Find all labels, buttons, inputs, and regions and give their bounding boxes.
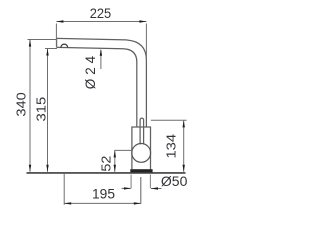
dim 225 left arrow xyxy=(56,20,63,22)
dim 195 right arrow xyxy=(134,202,141,204)
dim 134 bottom arrow xyxy=(183,165,185,172)
aerator dome xyxy=(61,44,68,47)
dim 134 line xyxy=(183,120,185,171)
dim 340 top arrow xyxy=(29,40,31,47)
dim 340 bottom arrow xyxy=(29,165,31,172)
dim 52 bottom arrow xyxy=(114,165,116,172)
base plate xyxy=(130,169,152,173)
svg-text:52: 52 xyxy=(99,156,114,172)
ball joint xyxy=(132,144,151,163)
dim 195 ext left xyxy=(63,174,65,205)
dim 315 top arrow xyxy=(46,49,48,56)
spout outer outline xyxy=(57,38,147,127)
dim 52 top arrow xyxy=(114,150,116,157)
svg-text:340: 340 xyxy=(13,92,28,116)
dim 315 ext top xyxy=(45,48,57,50)
dim 315 line xyxy=(47,49,49,172)
svg-text:Ø50: Ø50 xyxy=(161,173,188,189)
dim O50 left arrow xyxy=(122,187,131,189)
axis line xyxy=(140,177,142,204)
dim 340 ext top xyxy=(28,39,57,41)
counter line xyxy=(27,172,186,174)
dim 315 bottom arrow xyxy=(46,165,48,172)
lever rod xyxy=(140,118,144,144)
dim 52 line xyxy=(114,150,116,171)
svg-text:195: 195 xyxy=(92,186,115,202)
dim 225 ext right xyxy=(145,24,147,60)
dim 340 line xyxy=(29,40,31,172)
dim 225 right arrow xyxy=(139,20,146,22)
dim 225 ext left xyxy=(55,24,57,48)
dim 195 left arrow xyxy=(64,202,71,204)
dim O50 right arrow xyxy=(151,188,162,190)
svg-text:134: 134 xyxy=(164,134,179,159)
dim 195 line xyxy=(64,202,141,204)
dim 134 ext top xyxy=(151,119,187,121)
spout end cap xyxy=(56,38,58,47)
base stub right xyxy=(149,175,151,189)
base stub left xyxy=(130,175,132,189)
svg-text:315: 315 xyxy=(34,97,49,122)
spout inner outline xyxy=(57,47,137,127)
svg-text:Ø24: Ø24 xyxy=(83,55,98,89)
dim 52 tick xyxy=(114,149,132,151)
dim 225 line xyxy=(56,21,146,23)
svg-text:225: 225 xyxy=(90,5,112,21)
body cylinder xyxy=(132,127,151,169)
dim O24 arrow xyxy=(100,50,102,69)
dim 134 top arrow xyxy=(183,120,185,127)
